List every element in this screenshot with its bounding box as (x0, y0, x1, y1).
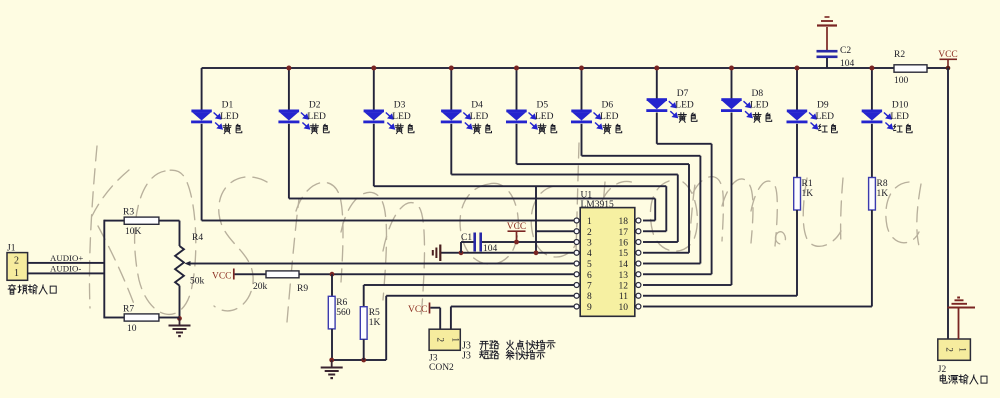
label colour 黄色 (D2) (310, 124, 318, 134)
pin 3 (U1) (574, 240, 579, 245)
wire top LED bus (202, 67, 894, 69)
svg-text:104: 104 (483, 244, 498, 254)
svg-text:LM3915: LM3915 (581, 200, 615, 210)
resistor R4 (pot 50k) (175, 246, 184, 286)
pin 18 (U1) (636, 218, 641, 223)
wire anode D9 (796, 68, 798, 111)
svg-text:LED: LED (675, 101, 694, 111)
svg-text:LED: LED (535, 112, 554, 122)
LED D1 (191, 110, 212, 124)
wire anode D6 (581, 68, 583, 111)
capacitor C2 (817, 50, 838, 53)
svg-text:R5: R5 (369, 308, 380, 318)
wire R4 wiper to U1 pin5 (SIG) (187, 263, 574, 265)
wire anode D1 (201, 68, 203, 111)
svg-text:LED: LED (220, 112, 239, 122)
junction R6/gnd (329, 358, 334, 363)
wire left vertical (R3/R7 tie) (103, 220, 105, 319)
junction R5/gnd (361, 358, 366, 363)
svg-text:D7: D7 (677, 89, 689, 99)
svg-text:LED: LED (890, 112, 909, 122)
junction bus/D3 (371, 66, 376, 71)
wire anode D7 (656, 68, 658, 99)
wire C1 to U1 pin3 (482, 241, 574, 243)
wire R2 right to VCC node (927, 67, 948, 69)
label colour 红色 (D10) (894, 124, 903, 132)
wire D1 cathode to U1 pin1 (202, 220, 574, 222)
svg-text:R2: R2 (894, 50, 905, 60)
svg-text:4: 4 (587, 249, 592, 259)
svg-text:D8: D8 (752, 89, 764, 99)
svg-text:R1: R1 (802, 179, 813, 189)
LED D7 (646, 98, 667, 112)
svg-text:D1: D1 (222, 101, 234, 111)
svg-text:J3: J3 (429, 354, 438, 364)
LED D10 (861, 110, 882, 124)
svg-text:LED: LED (392, 112, 411, 122)
svg-text:J1: J1 (7, 244, 16, 254)
wire D5 cathode to U1 pin14 (516, 124, 518, 164)
LED D3 (363, 110, 384, 124)
svg-text:15: 15 (619, 249, 629, 259)
junction bus/D4 (449, 66, 454, 71)
label colour 黄色 (D5) (538, 124, 546, 134)
resistor R5 (360, 307, 367, 340)
capacitor C1 (461, 241, 474, 243)
label colour 黄色 (D7) (678, 113, 686, 123)
svg-text:6: 6 (587, 271, 592, 281)
svg-text:1: 1 (958, 347, 968, 352)
svg-text:11: 11 (619, 292, 628, 302)
svg-text:10K: 10K (125, 227, 142, 237)
pin 7 (U1) (574, 283, 579, 288)
pin 12 (U1) (636, 283, 641, 288)
wire R4 bottom (179, 286, 181, 319)
svg-text:AUDIO-: AUDIO- (50, 264, 81, 274)
wire R7 left (104, 317, 124, 319)
svg-text:LED: LED (470, 112, 489, 122)
junction R4/R7/ground (177, 316, 182, 321)
svg-text:D4: D4 (471, 101, 483, 111)
svg-text:D3: D3 (394, 101, 406, 111)
pin 6 (U1) (574, 272, 579, 277)
wire R6 bottom (331, 329, 333, 360)
resistor R1 (794, 178, 801, 211)
junction VCC/pin3 (514, 240, 519, 245)
label colour 黄色 (D8) (753, 113, 761, 123)
ground (below R4) (179, 318, 181, 324)
svg-text:LED: LED (307, 112, 326, 122)
wire anode D5 (516, 68, 518, 111)
svg-text:2: 2 (945, 347, 955, 352)
connector J2 (938, 339, 971, 360)
wire D4 cathode to U1 pin15 (450, 124, 452, 175)
connector J1 (7, 253, 28, 281)
wire R5 bottom (363, 339, 365, 360)
svg-text:R7: R7 (123, 305, 134, 315)
pin 9 (U1) (574, 304, 579, 309)
pin 13 (U1) (636, 272, 641, 277)
wire junction to R6 (331, 274, 333, 296)
label colour 红色 (D9) (819, 124, 828, 132)
junction bus/D7 (654, 66, 659, 71)
LED D9 (787, 110, 808, 124)
pin 8 (U1) (574, 293, 579, 298)
svg-text:LED: LED (750, 101, 769, 111)
junction pin4 row (534, 250, 539, 255)
junction bus/D9 (795, 66, 800, 71)
resistor R2 (894, 65, 927, 72)
svg-text:8: 8 (587, 292, 592, 302)
wire anode D3 (373, 68, 375, 111)
svg-text:2: 2 (14, 256, 19, 267)
svg-text:10: 10 (127, 324, 137, 334)
wiper arrow R4 (185, 261, 191, 266)
svg-text:CON2: CON2 (429, 363, 454, 373)
resistor R8 (869, 178, 876, 211)
svg-text:2: 2 (436, 338, 446, 343)
junction bus/D5 (514, 66, 519, 71)
ground (left of C1, rotated) (439, 245, 441, 262)
svg-text:R3: R3 (123, 208, 134, 218)
label colour 黄色 (D3) (395, 124, 403, 134)
resistor R6 (328, 296, 335, 329)
wire R8 to U1 pin10 (871, 210, 873, 307)
resistor R3 (124, 217, 159, 224)
wire VCC to R9 (235, 273, 266, 275)
wire VCC rail down to J2 (947, 68, 949, 339)
junction R9/R6 (330, 272, 335, 277)
svg-text:R8: R8 (877, 179, 888, 189)
svg-text:14: 14 (619, 260, 629, 270)
svg-text:C1: C1 (461, 233, 472, 243)
wire D2 cathode to U1 pin17 (288, 124, 290, 199)
wire anode D8 (731, 68, 733, 99)
junction bus/D6 (579, 66, 584, 71)
svg-text:VCC: VCC (408, 305, 428, 315)
svg-text:12: 12 (619, 282, 629, 292)
svg-text:13: 13 (619, 271, 629, 281)
LED D2 (278, 110, 299, 124)
watermark kosmodrom.ua (89, 143, 921, 322)
wire AUDIO+ (28, 262, 105, 264)
svg-text:AUDIO+: AUDIO+ (50, 253, 83, 263)
wire D6 cathode to U1 pin13 (581, 124, 583, 156)
wire D3 cathode to U1 pin16 (373, 124, 375, 186)
wire anode D4 (450, 68, 452, 111)
svg-text:1: 1 (587, 217, 592, 227)
svg-text:D10: D10 (892, 101, 909, 111)
resistor R9 (266, 271, 299, 278)
junction bus/D2 (286, 66, 291, 71)
svg-text:R4: R4 (192, 233, 203, 243)
junction VCC node (946, 66, 951, 71)
label 电源输入口 (J2) (940, 375, 947, 384)
wire VCC to J3 pin2 (430, 307, 440, 309)
svg-text:D6: D6 (602, 101, 614, 111)
wire R9 to U1 pin6 (299, 273, 574, 275)
wire anode D10 (871, 68, 873, 111)
svg-text:LED: LED (600, 112, 619, 122)
svg-text:5: 5 (587, 260, 592, 270)
pin 4 (U1) (574, 250, 579, 255)
pin 14 (U1) (636, 261, 641, 266)
svg-text:9: 9 (587, 303, 592, 313)
svg-text:C2: C2 (840, 46, 851, 56)
svg-text:20k: 20k (253, 282, 268, 292)
LED D5 (506, 110, 527, 124)
svg-text:560: 560 (336, 308, 351, 318)
wire ground rail (332, 359, 387, 361)
ground (below R6) (331, 360, 333, 367)
wire R7 right (159, 317, 180, 319)
LED D8 (721, 98, 742, 112)
svg-text:D2: D2 (309, 101, 321, 111)
svg-text:10: 10 (619, 303, 629, 313)
svg-text:LED: LED (816, 112, 835, 122)
svg-text:1K: 1K (369, 318, 381, 328)
svg-text:2: 2 (587, 228, 592, 238)
op-amp / IC U1 LM3915 (580, 208, 635, 317)
wire R3 left (104, 220, 124, 222)
LED D6 (571, 110, 592, 124)
svg-text:D9: D9 (817, 101, 829, 111)
svg-text:J2: J2 (938, 365, 947, 375)
svg-text:100: 100 (894, 76, 909, 86)
wire R1 to U1 pin11 (796, 210, 798, 296)
svg-text:1K: 1K (802, 189, 814, 199)
svg-text:16: 16 (619, 239, 629, 249)
wire J3 pin1 to U1 pin9 (450, 307, 452, 330)
wire gnd rail to U1 pin8 (385, 296, 387, 360)
svg-text:7: 7 (587, 282, 592, 292)
ground (above J2) (958, 309, 960, 340)
wire D10 cathode to R8 (871, 124, 873, 178)
svg-text:D5: D5 (537, 101, 549, 111)
pin 11 (U1) (636, 293, 641, 298)
svg-text:1: 1 (451, 338, 461, 343)
svg-text:J3: J3 (462, 351, 471, 362)
label colour 黄色 (D1) (223, 124, 231, 134)
ground (above C2) (826, 27, 828, 50)
wire AUDIO- (28, 272, 105, 274)
svg-text:1K: 1K (877, 189, 889, 199)
svg-text:50k: 50k (190, 277, 205, 287)
wire D7 cathode to U1 pin13 (656, 113, 658, 144)
pin 16 (U1) (636, 240, 641, 245)
junction C1/gnd (459, 250, 464, 255)
label colour 黄色 (D6) (603, 124, 611, 134)
junction bus/D10 (869, 66, 874, 71)
wire anode D2 (288, 68, 290, 111)
label 音频输入口 (J1) (8, 285, 16, 295)
wire U1 pin7 to R5 (364, 284, 574, 286)
LED D4 (441, 110, 462, 124)
svg-text:104: 104 (840, 59, 855, 69)
pin 17 (U1) (636, 229, 641, 234)
pin 10 (U1) (636, 304, 641, 309)
wire D9 cathode to R1 (796, 124, 798, 178)
wire D8 cathode to U1 pin12 (731, 113, 733, 286)
svg-text:17: 17 (619, 228, 629, 238)
wire C1 stub (460, 242, 462, 253)
junction bus/D8 (729, 66, 734, 71)
wire R3 right to R4 top (159, 220, 180, 222)
pin 15 (U1) (636, 250, 641, 255)
pin 5 (U1) (574, 261, 579, 266)
pin 2 (U1) (574, 229, 579, 234)
wire D3-level to pin2/pin4 (535, 186, 537, 253)
svg-text:VCC: VCC (212, 272, 232, 282)
svg-text:1: 1 (14, 268, 19, 279)
svg-text:3: 3 (587, 239, 592, 249)
svg-text:R6: R6 (336, 298, 347, 308)
resistor R7 (124, 314, 159, 321)
label colour 黄色 (D4) (473, 124, 481, 134)
pin 1 (U1) (574, 218, 579, 223)
svg-text:18: 18 (619, 217, 629, 227)
wire U1 pin4 row (441, 252, 574, 254)
connector J3 (429, 329, 460, 350)
svg-text:R9: R9 (297, 284, 308, 294)
